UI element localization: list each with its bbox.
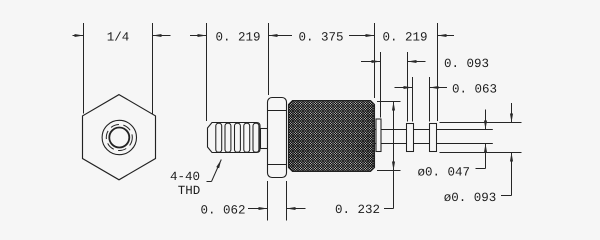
extension line flange left top [268, 23, 270, 95]
svg-text:ø0. 093: ø0. 093 [444, 191, 497, 205]
dim 0.232 down arrow [393, 154, 395, 171]
svg-text:0. 093: 0. 093 [444, 57, 489, 71]
dim dia047 down arrow [485, 110, 487, 130]
extension line disc2 left [429, 77, 431, 122]
dim 0.093 right arrow [408, 61, 426, 63]
svg-text:ø0. 047: ø0. 047 [418, 165, 471, 179]
dim 0.375 left arrow [269, 35, 293, 37]
svg-text:0. 062: 0. 062 [200, 204, 245, 218]
dim 1/4 right arrow [153, 35, 171, 37]
collar at knurl end [376, 119, 381, 152]
thread slot 4 [244, 123, 250, 152]
dim 0.093 left arrow [361, 61, 381, 63]
washer disc 1 [407, 124, 414, 152]
dim 0.232 up arrow [393, 102, 395, 119]
hex head outer chamfer circle [102, 120, 136, 154]
washer disc 2 [430, 124, 437, 152]
svg-text:4-40: 4-40 [170, 170, 200, 184]
svg-text:0. 063: 0. 063 [452, 83, 497, 97]
knurled body [218, 100, 444, 172]
dim 0.232 leader horizontal [384, 208, 394, 210]
extension line stud left [206, 23, 208, 121]
extension line knurl bottom tangent [377, 170, 401, 172]
extension line disc2 right tall [437, 23, 439, 121]
thread slot 3 [235, 123, 241, 152]
extension line disc top tangent [440, 122, 522, 124]
svg-text:THD: THD [178, 184, 201, 198]
neck between stud and flange [261, 129, 268, 149]
extension line flange right bottom [286, 181, 288, 221]
thread slot 5 [253, 123, 259, 152]
flange washer side view [268, 98, 287, 178]
dim 0.232 vertical dimension line [393, 102, 395, 209]
dim 0.062 left arrow [248, 208, 268, 210]
extension line disc bottom tangent [440, 152, 522, 154]
thread slot 1 [216, 123, 222, 152]
extension line collar right [380, 52, 382, 118]
threaded stud body [208, 123, 261, 153]
svg-text:1/4: 1/4 [107, 31, 130, 45]
hex head thread dashed circle [106, 125, 132, 151]
dim 1/4 left arrow [73, 35, 84, 37]
dim dia047 up arrow leader [485, 144, 487, 169]
dim 0.219 first left arrow [190, 35, 207, 37]
thread slot 2 [225, 123, 231, 152]
dim 0.062 right arrow [287, 208, 306, 210]
flange facet line bottom [268, 164, 287, 166]
extension line disc1 right [412, 77, 414, 122]
extension line knurl top tangent [377, 101, 401, 103]
svg-text:0. 219: 0. 219 [382, 31, 427, 45]
pin shaft top line [375, 129, 493, 131]
svg-text:0. 375: 0. 375 [298, 31, 343, 45]
hex head end view [83, 95, 156, 180]
dim dia093 down arrow [511, 103, 513, 123]
extension line knurl end [374, 23, 376, 98]
extension line hex right [152, 23, 154, 115]
dim 0.219 second right arrow [438, 35, 455, 37]
dim dia093 up arrow leader [511, 153, 513, 196]
dim 0.063 right arrow [430, 87, 448, 89]
dim 0.063 left arrow [395, 87, 413, 89]
extension line hex left [83, 23, 85, 114]
leader 4-40 THD [207, 181, 212, 183]
extension line disc1 left [407, 52, 409, 122]
hex head bore circle [109, 128, 129, 148]
dim dia047 leader horizontal [476, 168, 486, 170]
svg-text:0. 219: 0. 219 [215, 31, 260, 45]
flange facet line top [268, 110, 287, 112]
pin shaft bottom line [375, 143, 493, 145]
dim dia093 leader horizontal [501, 195, 512, 197]
dim 0.375 right arrow [349, 35, 375, 37]
extension line flange left bottom [267, 181, 269, 221]
svg-text:0. 232: 0. 232 [335, 203, 380, 217]
